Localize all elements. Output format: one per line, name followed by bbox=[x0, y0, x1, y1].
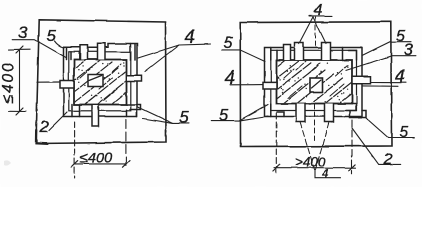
callout 3 leader shelf (left view) bbox=[13, 40, 66, 58]
faint scan smudge lower-left bbox=[4, 160, 11, 165]
column stub in centre (left view) bbox=[88, 75, 103, 87]
callout 4 second leader (left view) bbox=[145, 45, 179, 72]
dimension extension line left, dashed (right view) bbox=[275, 113, 277, 174]
svg-text:4: 4 bbox=[225, 68, 236, 89]
bold corner stroke, bottom-left of pit outline (left view) bbox=[36, 130, 47, 144]
svg-text:5: 5 bbox=[400, 124, 409, 141]
callout 4 top right leader (right view) bbox=[313, 17, 326, 44]
svg-text:2: 2 bbox=[383, 151, 393, 168]
svg-text:≤400: ≤400 bbox=[80, 151, 112, 167]
svg-text:2: 2 bbox=[39, 117, 50, 136]
callout 4 right leader (right view) bbox=[362, 83, 406, 87]
stake, left side (left view) bbox=[60, 81, 74, 89]
svg-text:4: 4 bbox=[322, 167, 329, 181]
svg-text:3: 3 bbox=[19, 23, 29, 42]
corner board lap, bottom-right (right view) bbox=[346, 104, 366, 118]
stake, bottom-left (right view) bbox=[296, 104, 305, 123]
centreline, vertical dashed (right view) bbox=[315, 17, 317, 47]
callout 5 bottom-right leader shelf (right view) bbox=[366, 118, 414, 138]
svg-text:4: 4 bbox=[395, 66, 405, 87]
bottom dimension extension line left, dashed (left view) bbox=[74, 122, 76, 178]
corner board lap, bottom-right (left view) bbox=[127, 105, 142, 117]
callout 4 leader shelf (left view) bbox=[138, 44, 211, 58]
callout 5 top-left leader shelf (right view) bbox=[222, 50, 265, 62]
stake, right side (left view) bbox=[127, 76, 142, 82]
dimension tick right (right view) bbox=[349, 164, 356, 171]
column stub diagonal mark (right view) bbox=[312, 80, 322, 88]
dimension extension line right, dashed (right view) bbox=[351, 120, 353, 174]
dimension tick lower (left view) bbox=[16, 108, 23, 115]
hatched foundation block (left view) bbox=[56, 52, 164, 138]
bottom dimension tick left (left view) bbox=[71, 161, 78, 168]
hatch speckle dots (right view) bbox=[278, 63, 349, 103]
lower extension line (left view) bbox=[9, 110, 27, 112]
dimension tick upper (left view) bbox=[16, 46, 23, 53]
svg-text:5: 5 bbox=[224, 35, 233, 52]
bottom dimension line ≤400 (left view) bbox=[75, 163, 126, 165]
callout 4 bottom left dashed leader (right view) bbox=[300, 122, 315, 170]
stake, top-left (right view) bbox=[295, 43, 304, 61]
dimension tick left (right view) bbox=[273, 164, 280, 171]
stake, top-left (left view) bbox=[80, 45, 88, 60]
hatched foundation block (right view) bbox=[258, 51, 398, 143]
callout 5 left lower leader shelf (right view) bbox=[211, 105, 268, 121]
svg-text:5: 5 bbox=[47, 26, 57, 45]
corner board lap, bottom-left (right view) bbox=[271, 104, 284, 117]
callout 4 left leader (right view) bbox=[230, 84, 263, 86]
centreline lower part, dashed (right view) bbox=[314, 104, 316, 140]
upper extension line (left view) bbox=[9, 48, 31, 50]
formwork board band outer edge (left view) bbox=[64, 44, 138, 117]
pit outline (outer square, left view) bbox=[36, 20, 166, 144]
callout 5 top leader (left view) bbox=[55, 41, 64, 48]
bottom dimension extension line right, dashed (left view) bbox=[125, 120, 127, 166]
column stub in centre (right view) bbox=[310, 78, 323, 92]
stake, top-centre (left view) bbox=[98, 43, 106, 59]
formwork board band inner edge / hatch boundary (right view) bbox=[277, 60, 353, 104]
vertical dimension line ≤400 (left view) bbox=[19, 50, 21, 112]
callout 5 bottom-right leader shelf (left view) bbox=[138, 107, 189, 123]
callout 4 top leader shelf (right view) bbox=[309, 15, 332, 17]
bottom dimension tick right (left view) bbox=[123, 161, 130, 168]
svg-text:5: 5 bbox=[219, 107, 229, 125]
stake, top-right (right view) bbox=[322, 43, 331, 61]
column stub diagonal mark (left view) bbox=[89, 76, 102, 81]
corner board lap, bottom-left (left view) bbox=[72, 105, 80, 117]
formwork board band outer edge (right view) bbox=[265, 48, 363, 117]
callout 3 right leader shelf (right view) bbox=[346, 56, 416, 71]
stake, right side (right view) bbox=[352, 77, 371, 84]
pit outline (outer square, right view) bbox=[240, 22, 391, 147]
board end tab, top-left (right view) bbox=[284, 45, 291, 61]
corner board lap, top-left (left view) bbox=[67, 47, 80, 59]
corner board lap, top-right (right view) bbox=[343, 48, 357, 61]
hatch speckle dots (left view) bbox=[77, 62, 125, 101]
callout 2 leader (left view) bbox=[49, 112, 67, 130]
callout 5 bottom-right second leader (left view) bbox=[143, 119, 173, 124]
formwork board middle edge (left view) bbox=[69, 52, 131, 111]
bottom dimension line >400 (right view) bbox=[274, 167, 356, 169]
stake, left side (right view) bbox=[263, 82, 277, 89]
formwork board band inner edge / pit hatch boundary (left view) bbox=[74, 60, 127, 105]
svg-text:4: 4 bbox=[314, 2, 323, 19]
callout 5 left lower second leader (right view) bbox=[239, 116, 268, 121]
callout 4 top left leader (right view) bbox=[299, 17, 313, 44]
formwork board middle edge (right view) bbox=[271, 50, 357, 110]
svg-text:4: 4 bbox=[185, 27, 196, 48]
svg-text:≤400: ≤400 bbox=[0, 62, 17, 104]
stake, bottom (left view) bbox=[92, 105, 99, 126]
callout 5 right leader shelf (right view) bbox=[362, 42, 411, 56]
svg-text:5: 5 bbox=[180, 109, 190, 127]
callout 4 bottom right dashed leader (right view) bbox=[316, 122, 330, 170]
callout 4 bottom shelf (right view) bbox=[315, 170, 340, 178]
stake, bottom-right (right view) bbox=[325, 104, 334, 123]
tie line from pit edge to left stake (left view) bbox=[37, 81, 60, 83]
callout 2 leader shelf (right view) bbox=[352, 128, 401, 164]
svg-text:3: 3 bbox=[404, 40, 414, 59]
corner board lap, top-left (right view) bbox=[271, 48, 277, 61]
corner board lap, top-right (left view) bbox=[130, 44, 132, 61]
